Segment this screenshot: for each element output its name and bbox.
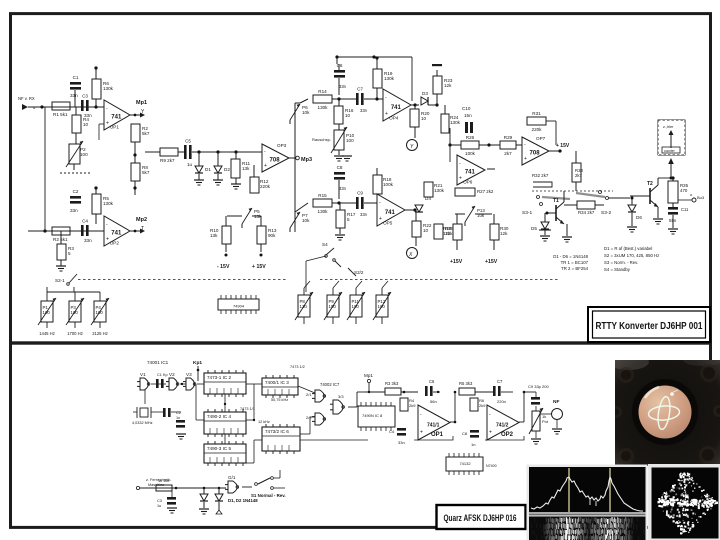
svg-text:D1 - D6 = 1N4148: D1 - D6 = 1N4148 (553, 254, 588, 259)
svg-text:C4: C4 (82, 219, 88, 224)
svg-text:100: 100 (378, 304, 386, 309)
svg-text:130k: 130k (103, 201, 114, 206)
svg-text:10k: 10k (302, 110, 310, 115)
svg-text:741: 741 (111, 115, 122, 121)
svg-text:1k 10k: 1k 10k (158, 479, 169, 483)
svg-text:220k: 220k (260, 184, 271, 189)
svg-text:10k: 10k (302, 218, 310, 223)
svg-text:R27 2k2: R27 2k2 (477, 189, 494, 194)
svg-text:C11: C11 (681, 207, 689, 212)
svg-text:7473 1/2: 7473 1/2 (290, 365, 305, 369)
svg-text:10: 10 (345, 113, 351, 118)
svg-text:R3 3k3: R3 3k3 (385, 381, 399, 386)
svg-text:100k: 100k (465, 151, 476, 156)
svg-text:C7: C7 (497, 379, 503, 384)
svg-text:C10: C10 (462, 106, 471, 111)
svg-text:Mp3: Mp3 (301, 157, 312, 163)
svg-text:NF: NF (553, 399, 559, 405)
svg-text:7490N IC 8: 7490N IC 8 (362, 413, 383, 418)
svg-text:D3: D3 (422, 91, 428, 96)
svg-text:56n: 56n (430, 399, 437, 404)
svg-text:- 15V: - 15V (217, 264, 230, 270)
svg-text:V2: V2 (169, 372, 175, 377)
svg-text:220k: 220k (532, 127, 543, 132)
svg-text:1n: 1n (471, 442, 475, 447)
svg-text:10: 10 (423, 228, 429, 233)
svg-text:4,0332 MHz: 4,0332 MHz (132, 421, 153, 425)
svg-text:33n: 33n (360, 108, 368, 113)
svg-text:7473/2 IC 6: 7473/2 IC 6 (265, 429, 289, 434)
svg-text:RTTY Konverter DJ6HP 001: RTTY Konverter DJ6HP 001 (596, 321, 703, 332)
svg-text:C2: C2 (73, 189, 79, 194)
svg-text:Quarz AFSK DJ6HP 016: Quarz AFSK DJ6HP 016 (444, 513, 517, 523)
svg-text:2k9: 2k9 (479, 403, 486, 408)
svg-text:OP5: OP5 (383, 221, 393, 226)
svg-text:1u: 1u (157, 504, 161, 508)
svg-text:TR 1 = BC107: TR 1 = BC107 (561, 260, 589, 265)
svg-text:5: 5 (68, 251, 71, 256)
svg-text:C4: C4 (389, 429, 395, 434)
svg-text:S4 = Standby: S4 = Standby (604, 267, 631, 272)
svg-text:Mp1: Mp1 (364, 373, 373, 378)
svg-text:+: + (524, 156, 527, 162)
svg-text:+: + (420, 430, 423, 436)
svg-text:R29: R29 (504, 135, 513, 140)
svg-text:5k7: 5k7 (142, 131, 150, 136)
svg-text:R31: R31 (532, 111, 541, 116)
svg-text:90k: 90k (268, 233, 276, 238)
svg-text:100: 100 (43, 310, 51, 315)
svg-text:D2: D2 (224, 167, 230, 172)
svg-text:z.,hler: z.,hler (663, 125, 674, 129)
svg-text:S3 = Norm. - Rev.: S3 = Norm. - Rev. (604, 260, 638, 265)
svg-text:130k: 130k (450, 120, 461, 125)
svg-text:100k: 100k (383, 182, 394, 187)
svg-text:1n: 1n (176, 416, 180, 420)
svg-text:C9 33p 200: C9 33p 200 (528, 384, 549, 389)
svg-text:100: 100 (346, 138, 354, 143)
svg-text:R26: R26 (466, 135, 475, 140)
svg-text:470: 470 (680, 188, 688, 193)
svg-text:100: 100 (329, 304, 337, 309)
svg-text:N7400: N7400 (486, 464, 497, 468)
svg-text:S2/2: S2/2 (354, 270, 364, 275)
svg-text:R32 2k7: R32 2k7 (532, 173, 549, 178)
svg-text:G/1: G/1 (228, 475, 236, 480)
svg-text:OP2: OP2 (110, 241, 120, 246)
svg-text:C9: C9 (357, 191, 363, 196)
svg-text:OP2: OP2 (501, 432, 514, 438)
svg-text:OP4: OP4 (389, 116, 399, 121)
svg-text:D6: D6 (636, 215, 642, 220)
svg-text:R34 2k7: R34 2k7 (578, 210, 595, 215)
svg-text:130k: 130k (434, 188, 445, 193)
svg-text:R5 3k3: R5 3k3 (459, 381, 473, 386)
svg-text:C6: C6 (429, 379, 435, 384)
svg-text:33n: 33n (398, 440, 405, 445)
svg-text:S4: S4 (322, 242, 328, 247)
svg-text:12k: 12k (444, 83, 452, 88)
svg-text:R9 2k7: R9 2k7 (160, 158, 175, 163)
svg-text:C1: C1 (73, 75, 79, 80)
svg-text:V1: V1 (140, 372, 146, 377)
svg-text:33n: 33n (70, 93, 78, 98)
svg-text:R14: R14 (318, 89, 327, 94)
svg-text:1u: 1u (187, 162, 193, 167)
svg-text:OP1: OP1 (431, 432, 444, 438)
svg-text:741: 741 (391, 105, 402, 111)
svg-text:+: + (459, 176, 462, 182)
svg-text:+: + (379, 216, 382, 222)
svg-text:C3: C3 (157, 499, 162, 503)
svg-text:T2: T2 (647, 181, 653, 187)
svg-text:220n: 220n (497, 399, 506, 404)
svg-text:+ 15V: + 15V (556, 143, 570, 149)
svg-text:C8: C8 (462, 431, 468, 436)
svg-text:100: 100 (96, 310, 104, 315)
svg-text:708: 708 (270, 157, 281, 163)
svg-text:2k7: 2k7 (504, 151, 512, 156)
svg-text:1445 Hz: 1445 Hz (39, 331, 55, 336)
svg-text:C8: C8 (337, 165, 343, 170)
svg-text:741/1: 741/1 (427, 423, 440, 429)
svg-text:10: 10 (83, 122, 89, 127)
svg-text:100: 100 (80, 152, 88, 157)
svg-text:74002 IC7: 74002 IC7 (320, 382, 340, 387)
svg-text:130: 130 (300, 304, 308, 309)
svg-text:+15V: +15V (485, 259, 498, 265)
svg-text:741/2: 741/2 (496, 423, 509, 429)
svg-text:S2-1: S2-1 (55, 278, 65, 283)
svg-text:+15V: +15V (450, 259, 463, 265)
svg-text:3/3: 3/3 (338, 394, 344, 399)
svg-text:+: + (489, 430, 492, 436)
svg-text:S3-2: S3-2 (601, 210, 611, 216)
svg-text:+: + (385, 111, 388, 117)
svg-text:Bu3: Bu3 (697, 195, 705, 200)
svg-text:130k: 130k (318, 105, 329, 110)
svg-text:33n: 33n (360, 212, 368, 217)
svg-text:10: 10 (421, 116, 427, 121)
svg-text:D4: D4 (425, 196, 431, 201)
svg-text:74132: 74132 (459, 461, 471, 466)
svg-text:130k: 130k (318, 209, 329, 214)
svg-text:S2 = 3xUM 170, 425, 850 Hz: S2 = 3xUM 170, 425, 850 Hz (604, 253, 659, 258)
svg-text:Mp1: Mp1 (136, 100, 147, 106)
svg-text:2k9: 2k9 (409, 403, 416, 408)
svg-text:12k: 12k (500, 231, 508, 236)
svg-text:2/2: 2/2 (306, 415, 312, 420)
svg-text:708: 708 (530, 150, 541, 156)
svg-text:7490-3 IC 5: 7490-3 IC 5 (207, 446, 231, 451)
svg-text:Mp2: Mp2 (136, 217, 147, 223)
svg-text:741: 741 (111, 231, 122, 237)
svg-text:C1 Kp: C1 Kp (157, 373, 168, 377)
svg-text:2/1: 2/1 (306, 392, 312, 397)
svg-text:130k: 130k (384, 76, 395, 81)
svg-text:741: 741 (465, 170, 476, 176)
svg-text:741: 741 (385, 210, 396, 216)
svg-text:+: + (264, 163, 267, 169)
svg-text:T1: T1 (553, 198, 559, 204)
svg-text:100: 100 (71, 310, 79, 315)
svg-text:C6: C6 (337, 63, 343, 68)
svg-text:130k: 130k (103, 86, 114, 91)
svg-text:100: 100 (352, 304, 360, 309)
svg-text:TR 2 = BF254: TR 2 = BF254 (561, 266, 588, 271)
svg-text:NF v. RX: NF v. RX (18, 96, 35, 101)
svg-text:Pot: Pot (542, 419, 549, 424)
svg-text:D1 = R af (Best.) variabel: D1 = R af (Best.) variabel (604, 246, 652, 251)
svg-text:X: X (408, 252, 413, 258)
svg-text:12 kHz: 12 kHz (258, 420, 270, 424)
svg-text:5: 5 (347, 217, 350, 222)
svg-text:12k: 12k (443, 231, 451, 236)
svg-text:OP6: OP6 (463, 180, 473, 185)
svg-text:13k: 13k (210, 233, 218, 238)
svg-text:S3-1: S3-1 (522, 210, 532, 216)
svg-text:+ 15V: + 15V (252, 264, 266, 270)
svg-text:R15: R15 (318, 193, 327, 198)
svg-text:C3: C3 (82, 94, 88, 99)
svg-text:OP3: OP3 (277, 143, 287, 148)
svg-text:2125 Hz: 2125 Hz (92, 331, 108, 336)
svg-text:33n: 33n (84, 238, 92, 243)
svg-text:13k: 13k (242, 166, 250, 171)
svg-text:counter: counter (664, 149, 676, 153)
svg-text:7490-2 IC 4: 7490-2 IC 4 (207, 414, 231, 419)
svg-text:R1 5k1: R1 5k1 (53, 112, 68, 117)
svg-text:33n: 33n (339, 84, 347, 89)
svg-text:OP1: OP1 (110, 125, 120, 130)
svg-text:OP7: OP7 (536, 136, 546, 141)
svg-text:74904: 74904 (233, 304, 245, 309)
svg-text:7400/1 IC 3: 7400/1 IC 3 (265, 380, 289, 385)
svg-text:74001 IC1: 74001 IC1 (147, 360, 169, 365)
svg-text:C7: C7 (357, 87, 363, 92)
svg-text:33n: 33n (339, 186, 347, 191)
svg-text:50,75 kHz: 50,75 kHz (271, 398, 288, 402)
svg-text:2k7: 2k7 (575, 173, 583, 178)
svg-text:5k7: 5k7 (142, 170, 150, 175)
svg-text:D1, D2 1N4148: D1, D2 1N4148 (228, 498, 258, 503)
svg-text:S1 Normal - Rev.: S1 Normal - Rev. (251, 493, 286, 498)
svg-text:+: + (106, 121, 109, 127)
svg-text:C5: C5 (185, 139, 191, 144)
svg-text:7473-1 IC 2: 7473-1 IC 2 (207, 375, 231, 380)
svg-text:Kp1: Kp1 (193, 360, 202, 366)
svg-text:1700 Hz: 1700 Hz (67, 331, 83, 336)
svg-text:33n: 33n (70, 208, 78, 213)
svg-text:Rauschsp.: Rauschsp. (312, 137, 331, 142)
svg-text:V3: V3 (186, 372, 192, 377)
svg-text:7473 1/1: 7473 1/1 (240, 407, 255, 411)
svg-text:15n: 15n (464, 113, 472, 118)
svg-text:+: + (106, 237, 109, 243)
svg-text:D5: D5 (531, 226, 537, 231)
svg-text:D1: D1 (205, 167, 211, 172)
